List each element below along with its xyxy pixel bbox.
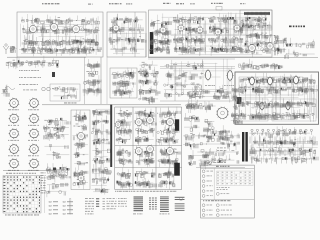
CRT socket [216,107,229,120]
wire x17 drop [16,57,18,68]
video amp parts [204,119,217,142]
legend text col3 [103,198,117,209]
wire mesh convergence [240,74,317,120]
mains transformer dark bars [242,132,248,162]
convergence row A [239,73,318,96]
switch text row2 [19,76,41,79]
wire mesh psu [252,131,318,163]
defl grid horizontals [115,107,182,190]
speaker area parts [45,183,68,197]
tube T305 [233,24,241,32]
reactance parts [188,85,231,103]
rect hatch row2 [250,149,315,156]
tube V16 [146,145,155,154]
tube V1 [29,25,38,34]
diodes pair [42,87,59,91]
chroma parts left [149,18,171,54]
caption chassis 6S-05GL [289,26,305,28]
trimmer row circles [251,129,313,135]
wire divider video box [134,12,136,57]
wire bus y66 [160,66,235,68]
tube V12 [134,118,143,127]
tube V8 oval [248,76,255,86]
tube V13 [146,116,155,125]
vert defl left [91,110,111,195]
sync box [110,68,137,98]
block border IF box [17,12,103,57]
caption Kanalwaehler [176,3,184,4]
table notes col [41,173,46,194]
parts below IF box [6,56,59,69]
tube socket R4 [28,144,39,157]
tube V9 oval [266,76,273,86]
video out parts [188,149,212,169]
tube socket R5 [28,158,39,171]
EHT parts [186,100,216,113]
sync right parts [139,61,160,105]
conv sub-box 1 [239,77,268,95]
wire mesh chroma box [158,12,270,55]
caption sub [190,2,195,5]
tube V18 faint [114,121,122,129]
misc top-right parts [285,38,315,59]
tube V17 [166,147,175,156]
caption Bildkanal [109,3,122,4]
sound discr parts [53,87,79,100]
output transformer dark bar [174,163,180,176]
burst amp parts [164,59,204,99]
caption under V7 [224,84,234,87]
flyback transformer dark bar [175,119,179,131]
defl cell B parts [134,108,156,146]
switch text row4 [23,89,37,92]
left-of-conv parts [231,88,240,109]
tube V6 oval [204,69,212,81]
defl cell E parts [135,146,155,168]
tube V4 [248,44,257,53]
rect hatch row3 [252,158,312,164]
table footer [5,214,39,217]
legend text col4 [118,198,127,206]
wire mesh IF box [20,14,98,55]
wire vert x107 [106,57,108,104]
small dark blob [175,163,178,166]
tube socket R3 [28,128,39,141]
tube V2 [50,23,59,32]
delay line parts [242,13,271,31]
tube V7 oval [226,69,234,81]
conv sub-box 4 [272,99,316,121]
terminal TA TB [1,84,9,96]
text under crt [211,161,226,164]
pot parts [44,144,69,160]
caption Tonkanal [126,3,133,4]
tube socket R1 [28,98,39,111]
defl cell A parts [116,108,132,145]
tube T301 [159,26,167,34]
switch text row1 [19,69,39,72]
sync spill parts [138,69,151,95]
defl grid verticals [115,107,182,190]
conv-bottom-left parts [231,112,243,124]
EHT cluster2 [187,99,199,113]
defl cell I parts [158,168,175,188]
switch text row3 [19,83,38,86]
convergence row B [238,98,315,122]
table right col [44,176,46,214]
small terminal box on top edge [216,7,222,11]
legend tall bars [70,199,71,215]
tube T303 [196,26,204,34]
wire bus y68 [160,67,235,69]
delay line DL1 dark band [244,12,270,15]
tube V10b oval [259,101,266,110]
chassis bar dark [110,105,112,168]
AGC column [83,59,102,97]
chroma parts mid [173,14,206,56]
caption section3 [163,3,171,4]
tube T302 [177,24,185,32]
legend block D rows [175,197,185,211]
wire bus y101 [160,100,232,102]
under-crt parts [217,125,231,144]
audio box [71,110,90,190]
caption under defl boxes [115,190,177,193]
caption under V6 [205,84,215,87]
audio driver parts [43,118,70,141]
tube V5 [266,42,274,50]
tube V11 [77,132,86,141]
wire under tubes [3,170,55,172]
dark rect small [52,72,55,77]
wire mesh video box [108,14,144,54]
legend block A dark rows [133,197,143,215]
legend small circles [179,197,182,200]
caption sheet no [88,4,93,5]
legend symbol rows [49,201,73,214]
wire vert x101 [100,57,102,104]
chroma parts right [208,12,244,56]
tube T304 [214,28,222,36]
sync parts [111,68,135,99]
video box parts [109,14,146,56]
phono squiggle [5,87,15,90]
table caption [6,172,36,175]
tube V10 oval [292,75,299,85]
tube socket L4 [8,144,19,157]
dark blob audio [53,168,56,171]
psu left parts [196,131,239,164]
audio parts [73,110,89,189]
sound discr box [50,84,80,101]
tube socket L1 [8,98,19,111]
tube V14 [166,118,175,127]
tube V15 [134,147,143,156]
wire mesh center-left [91,109,110,194]
choke dark [237,97,242,104]
tube T201 [112,24,120,32]
wire bus y167 r [196,167,245,169]
conv sub-box 2 [272,77,303,95]
tube V10c oval [285,101,292,110]
IF upper parts [21,15,99,37]
tube V11b [77,174,85,182]
wire bus y104 [42,104,181,106]
wire bus y57 left [7,56,86,58]
caption Farbkanal [211,3,223,4]
tube socket L2 [8,113,19,126]
tube socket R2 [28,113,39,126]
block border video box [107,12,146,57]
tube socket L3 [8,128,19,141]
psu right parts [249,126,318,164]
defl cell H parts [134,169,157,189]
defl cell D parts [116,146,133,167]
caption sub2 [240,2,246,5]
legend block B [149,198,157,210]
valve table grid [3,176,41,214]
caption Tonteil [64,102,77,105]
boost parts [183,113,200,150]
block border delay sub-box [240,10,272,30]
tube socket L5 [8,158,19,171]
legend marks col2 [96,198,99,207]
CRT text [217,148,229,151]
input filter [9,46,17,53]
block border chroma box [149,10,273,57]
legend block C dark rows [160,197,170,215]
legend text col1 [85,198,94,214]
wire bus y57 right [148,57,318,59]
wire vert x84 [84,57,86,104]
audio out dense row [46,163,71,182]
demod parts [244,29,279,57]
parts right of chroma box [274,35,287,53]
antenna symbol [3,44,9,54]
wire x146 vert [145,33,147,57]
transformer T1 dark core [150,32,154,54]
wire bus y59 [148,58,235,60]
wire corner x175 [174,66,176,101]
caption Fernseh-Empfaenger [42,3,59,4]
defl cell C parts [156,107,180,146]
voltage table [201,161,261,219]
rect hatch row1 [250,137,315,144]
defl cell F parts [157,148,181,168]
conv sub-box 3 [239,99,268,121]
defl cell G parts [117,168,133,190]
tube V3 [72,25,81,34]
block border convergence box [235,72,319,124]
hatch row above conv box [239,59,283,71]
wire mesh burst [164,59,232,99]
IF dense row [19,35,102,57]
